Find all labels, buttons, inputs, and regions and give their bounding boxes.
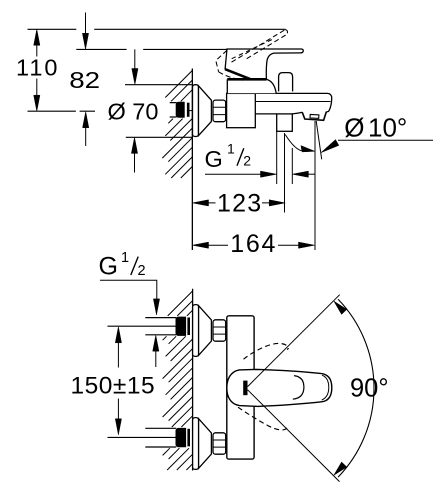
wall hatching (top view) [162, 71, 192, 179]
lever inner cap contour [293, 376, 304, 400]
upper pipe axis line (150 ref) [108, 325, 177, 327]
90° swing arc [338, 299, 374, 477]
centerline tick at pipe axis [189, 110, 201, 112]
lower escutcheon cone [199, 419, 212, 469]
svg-text:Ø: Ø [344, 113, 364, 143]
svg-text:G: G [205, 146, 223, 172]
cartridge cap [227, 79, 276, 93]
Ø70 dimension [134, 49, 136, 69]
cap top line (thick) [227, 78, 266, 81]
lower pipe black body [176, 429, 185, 447]
110 dimension [36, 45, 38, 96]
faucet body (front) [227, 316, 254, 459]
barrel bottom line [255, 113, 276, 115]
escutcheon bottom reference line (Ø70) [126, 136, 193, 138]
pipe fitting bar [187, 103, 190, 117]
diverter knob [279, 73, 293, 92]
123 dimension [208, 202, 270, 204]
arc arrowheads [334, 301, 347, 314]
lever-top reference line (82 dim) [76, 48, 228, 50]
swing angle legs [248, 295, 340, 387]
svg-text:2: 2 [243, 153, 251, 169]
lower pipe axis line (150 ref) [108, 436, 177, 438]
supply pipe in wall (top view) [170, 103, 177, 117]
svg-text:90°: 90° [350, 374, 389, 402]
upper escutcheon cone [199, 306, 212, 356]
lever outer cap double line [322, 375, 329, 400]
body connection block [227, 93, 256, 127]
dashed raised lever [216, 30, 288, 81]
lever pivot bottom edge (thick) [225, 69, 251, 79]
label 82 [69, 68, 100, 94]
wall surface line (top view, continues as extension line) [191, 69, 193, 251]
upper union nut [213, 320, 226, 341]
barrel mid contour line [256, 101, 331, 103]
G1/2 leader (top view) [205, 173, 262, 175]
outlet centerline extension line [284, 133, 286, 213]
escutcheon top reference line (Ø70) [125, 84, 192, 86]
upper pipe black body [176, 317, 185, 335]
Ø10° right arrowhead + leader [321, 140, 339, 153]
svg-text:1: 1 [121, 250, 129, 266]
82 dimension [85, 13, 87, 35]
aerator insert [310, 114, 319, 118]
150±15 dimension [117, 342, 119, 368]
solid lever (front view) [227, 369, 332, 406]
dashed lever raised position hint [244, 343, 289, 359]
svg-text:Ø 70: Ø 70 [108, 99, 159, 125]
svg-text:10°: 10° [368, 113, 407, 143]
svg-text:150±15: 150±15 [71, 372, 156, 399]
solid lever (side view) [225, 49, 303, 79]
svg-text:G: G [99, 253, 118, 281]
svg-text:1: 1 [227, 141, 235, 157]
lower escutcheon base ring [193, 418, 199, 470]
wall hatching (bottom view) [163, 291, 193, 470]
top reference line (handle raised tip level) [28, 28, 286, 30]
shower outlet union [277, 114, 293, 131]
lower supply pipe [145, 428, 176, 447]
G1/2 leader (bottom view) [100, 280, 157, 301]
svg-text:82: 82 [69, 68, 100, 94]
164 dimension [208, 244, 300, 246]
svg-text:123: 123 [217, 190, 262, 218]
escutcheon cone [199, 86, 212, 136]
wall surface line (bottom view) [192, 289, 194, 471]
svg-text:110: 110 [16, 55, 59, 81]
Ø10° left arrowhead [301, 146, 315, 152]
dashed lever lowered position hint [238, 407, 287, 430]
svg-text:164: 164 [230, 230, 277, 258]
pipe black body [177, 103, 184, 117]
lever slot [243, 381, 247, 396]
aerator tray [302, 112, 326, 121]
lower union nut [213, 433, 226, 454]
upper escutcheon base ring [193, 305, 199, 357]
water stream lines [314, 121, 316, 250]
upper supply pipe [145, 318, 176, 335]
spout underside to aerator [292, 112, 302, 114]
escutcheon base ring [193, 85, 199, 137]
union nut [213, 100, 226, 122]
outlet thread extension lines [276, 131, 278, 184]
Ø10° leader: curved arc from outlet centerline [285, 135, 303, 152]
pipe axis reference line (110/82 dims) [28, 110, 96, 112]
svg-text:2: 2 [138, 263, 146, 279]
body barrel top and spout nose [227, 93, 332, 111]
